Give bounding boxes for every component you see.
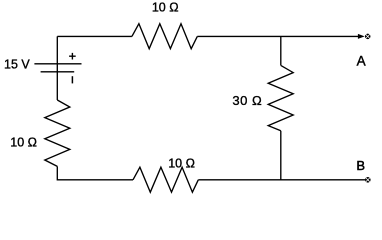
svg-text:15 V: 15 V	[4, 58, 30, 72]
arrowhead at terminal A	[358, 34, 365, 39]
wire: top junction down to R3	[280, 36, 282, 65]
battery V1 plates	[34, 64, 81, 72]
terminal B symbol (circle with cross)	[365, 177, 371, 183]
svg-text:10 Ω: 10 Ω	[10, 136, 37, 150]
wire: R4 to terminal B	[198, 179, 365, 181]
resistor R1 (10 ohm, top)	[132, 24, 197, 49]
resistor R4 (10 ohm, bottom)	[133, 167, 198, 192]
battery polarity plus	[69, 53, 76, 60]
resistor R2 (10 ohm, left vertical)	[45, 100, 70, 166]
resistor R3 (30 ohm, middle vertical)	[268, 65, 293, 130]
svg-text:B: B	[356, 158, 365, 173]
svg-text:10 Ω: 10 Ω	[168, 157, 195, 171]
terminal A symbol (circle with cross)	[365, 34, 371, 40]
wire: R3 to bottom junction	[280, 131, 282, 180]
battery polarity minus tick	[71, 76, 73, 83]
svg-text:30 Ω: 30 Ω	[232, 93, 262, 108]
wire: R1 to terminal A (through top junction)	[197, 35, 358, 37]
svg-text:10 Ω: 10 Ω	[152, 1, 179, 15]
wire: battery to R2	[56, 72, 58, 100]
svg-text:A: A	[357, 54, 366, 69]
wire: R2 to bottom-left corner and along bottom to R4	[57, 166, 133, 179]
wire: left branch vertical (top wire down to battery)	[56, 36, 58, 63]
wire: top-left corner to R1	[57, 35, 132, 37]
